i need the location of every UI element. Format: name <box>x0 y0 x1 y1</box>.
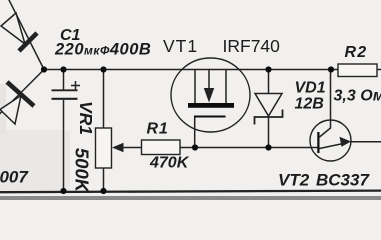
transistor VT2 circle <box>310 120 351 161</box>
svg-text:12В: 12В <box>295 96 324 113</box>
wire VR1 top lead <box>103 70 105 129</box>
node VR1 bottom <box>100 188 106 194</box>
diode D-lower triangle <box>0 96 21 125</box>
VT1 substrate vertical <box>208 70 210 89</box>
svg-text:R2: R2 <box>345 44 368 61</box>
wire gate line to VD1/VT2 <box>195 147 318 149</box>
svg-text:3,3 Ом: 3,3 Ом <box>334 88 381 105</box>
svg-text:500K: 500K <box>72 148 93 194</box>
node C1 bottom <box>60 188 66 194</box>
svg-text:470K: 470K <box>149 155 190 172</box>
node VD1 bottom <box>265 144 271 150</box>
diode D-lower cathode bar <box>7 82 34 106</box>
VT1 substrate arrow <box>204 88 214 103</box>
svg-text:VT1: VT1 <box>163 36 198 56</box>
resistor R2 body <box>338 64 377 77</box>
wire VT2 collector <box>320 70 331 138</box>
wire bridge upper edge <box>8 0 44 70</box>
svg-text:R1: R1 <box>147 121 169 138</box>
VT1 channel bar <box>188 103 234 108</box>
node C1 top <box>60 66 66 72</box>
VT1 gate plate <box>194 116 226 118</box>
zener VD1 cathode bar with ticks <box>255 110 283 125</box>
zener VD1 triangle <box>255 94 282 117</box>
VT1 source vertical <box>225 70 227 104</box>
diode D-upper triangle <box>1 13 25 44</box>
svg-text:VR1: VR1 <box>76 101 96 135</box>
resistor R1 body <box>142 140 181 155</box>
wire top rail <box>44 69 338 71</box>
wire VT2 emitter out <box>350 141 381 143</box>
VT2 emitter arrowhead <box>340 137 352 147</box>
transistor VT1 circle <box>171 58 250 132</box>
capacitor C1 plates <box>52 89 78 91</box>
svg-text:VT2: VT2 <box>278 171 310 190</box>
VT1 gate lead <box>194 118 196 148</box>
zener VD1 top lead <box>268 70 270 94</box>
node VD1 top <box>265 66 271 72</box>
node R2/VT2 <box>328 66 334 72</box>
wire C1 bottom lead <box>63 100 65 191</box>
svg-text:VD1: VD1 <box>295 80 326 97</box>
potentiometer VR1 body <box>96 128 112 168</box>
VT2 base bar <box>317 132 319 153</box>
wire top rail after R2 <box>377 69 381 71</box>
wire bridge lower edge <box>0 70 44 117</box>
svg-text:2007: 2007 <box>0 168 29 187</box>
VR1 wiper arrow <box>112 143 124 152</box>
svg-text:BC337: BC337 <box>316 171 370 190</box>
VT1 drain vertical <box>194 70 196 104</box>
wire C1 top lead <box>63 70 65 90</box>
node gate <box>192 144 198 150</box>
svg-text:220мкФ400В: 220мкФ400В <box>54 41 151 59</box>
wire bottom rail <box>0 191 381 193</box>
wire VR1 bottom lead <box>103 168 105 191</box>
diode D-upper cathode bar <box>19 33 37 51</box>
wire wiper to R1 <box>122 147 142 149</box>
svg-text:IRF740: IRF740 <box>223 36 281 56</box>
VT2 emitter <box>320 143 349 149</box>
wire R1 to gate node <box>180 147 195 149</box>
node VR1 top <box>100 66 106 72</box>
node bridge+ <box>41 66 47 72</box>
scan edge band (bottom) <box>0 196 381 200</box>
zener VD1 bottom lead <box>268 117 270 148</box>
C1 plus sign <box>71 81 80 90</box>
